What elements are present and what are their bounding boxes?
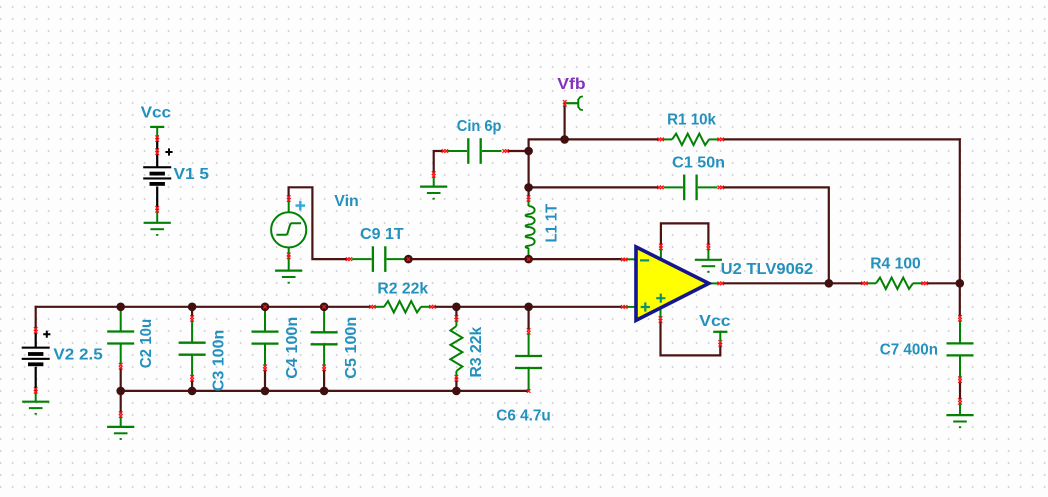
pin	[34, 327, 38, 331]
wire	[191, 380, 193, 392]
node Vfb terminal	[565, 102, 579, 104]
power Vcc V1 rail symbol	[150, 126, 164, 128]
wire	[120, 368, 122, 392]
wire	[528, 138, 659, 140]
wire	[455, 307, 457, 320]
wire	[35, 306, 372, 308]
pin	[263, 305, 266, 308]
ground	[433, 176, 435, 187]
junction	[320, 303, 329, 312]
svg-text:C3 100n: C3 100n	[210, 330, 227, 392]
pin	[34, 387, 38, 391]
resistor R2	[374, 306, 384, 308]
junction	[524, 183, 533, 192]
ground	[107, 426, 134, 428]
wire	[191, 307, 193, 317]
wire	[264, 369, 266, 392]
pin	[287, 195, 291, 199]
capacitor C7	[959, 320, 961, 343]
svg-text:R3 22k: R3 22k	[468, 327, 485, 378]
wire	[323, 369, 325, 392]
junction	[452, 303, 461, 312]
capacitor C6	[528, 333, 530, 356]
junction	[188, 387, 197, 396]
pin	[922, 282, 926, 286]
wire	[959, 138, 961, 317]
wire	[563, 103, 565, 139]
ground	[707, 248, 709, 260]
ground	[420, 186, 447, 188]
wire	[289, 187, 348, 259]
svg-text:C5 100n: C5 100n	[343, 317, 360, 379]
junction	[116, 303, 125, 312]
pin	[442, 149, 446, 153]
svg-text:R1 10k: R1 10k	[667, 111, 716, 128]
wire	[661, 319, 721, 356]
svg-text:Vin: Vin	[334, 193, 359, 210]
ground	[144, 222, 171, 224]
capacitor C3	[191, 320, 193, 343]
junction	[560, 135, 569, 144]
pin	[718, 186, 722, 190]
junction	[524, 147, 533, 156]
junction	[116, 387, 125, 396]
pin	[527, 389, 531, 393]
wire	[527, 139, 529, 198]
pin	[119, 411, 123, 415]
pin	[958, 376, 962, 380]
op-amp minus	[640, 259, 649, 261]
junction	[404, 255, 413, 264]
ground	[35, 392, 37, 402]
ground	[946, 414, 973, 416]
pin	[369, 305, 373, 309]
wire	[507, 150, 529, 152]
inductor L1	[528, 201, 530, 207]
pin	[621, 305, 625, 309]
svg-text:R4 100: R4 100	[870, 255, 921, 272]
pin	[322, 305, 325, 308]
wire	[527, 307, 529, 331]
capacitor C2	[120, 307, 122, 332]
battery V1	[143, 166, 171, 168]
pin	[155, 135, 159, 139]
voltage source Vin	[271, 212, 306, 247]
svg-text:V1 5: V1 5	[174, 166, 210, 183]
pin	[657, 138, 661, 142]
pin	[657, 186, 661, 190]
junction	[524, 303, 533, 312]
wire	[959, 382, 961, 401]
resistor R3	[455, 321, 457, 327]
plus sign Vin	[296, 201, 306, 211]
plus sign V2	[43, 331, 50, 338]
wire	[828, 187, 830, 283]
op-amp plus 2	[656, 294, 665, 303]
wire	[661, 223, 709, 246]
pin	[718, 138, 722, 142]
capacitor C9	[352, 258, 372, 260]
junction	[956, 279, 965, 288]
wire	[408, 258, 621, 260]
wire	[455, 378, 457, 392]
ground	[275, 270, 302, 272]
svg-text:L1 1T: L1 1T	[543, 204, 560, 243]
wire	[120, 391, 122, 414]
junction	[188, 303, 197, 312]
ground	[959, 404, 961, 416]
wire	[35, 306, 37, 331]
pin	[958, 398, 962, 402]
ground	[156, 211, 158, 223]
junction	[825, 279, 834, 288]
pin	[659, 244, 663, 248]
pin	[190, 315, 194, 319]
svg-text:C9 1T: C9 1T	[360, 226, 404, 243]
pin	[429, 305, 433, 309]
capacitor C4	[264, 307, 266, 332]
pin	[287, 253, 291, 257]
pin	[563, 100, 567, 104]
svg-text:C1 50n: C1 50n	[672, 155, 725, 172]
svg-text:C6 4.7u: C6 4.7u	[496, 408, 551, 425]
ground	[695, 259, 722, 261]
pin	[861, 282, 865, 286]
wire	[722, 186, 830, 188]
pin	[263, 365, 267, 369]
op-amp U2	[636, 247, 709, 320]
svg-text:C4 100n: C4 100n	[284, 317, 301, 379]
pin	[155, 148, 159, 152]
wire	[433, 150, 444, 152]
pin	[346, 257, 350, 261]
svg-text:U2 TLV9062: U2 TLV9062	[721, 261, 814, 278]
pin	[707, 244, 711, 248]
svg-text:C2 10u: C2 10u	[138, 319, 155, 369]
battery V2	[22, 347, 50, 349]
pin	[659, 316, 663, 320]
op-amp U2 input pins	[621, 258, 636, 260]
wire	[722, 282, 863, 284]
pin	[432, 171, 436, 175]
pin	[527, 195, 531, 199]
pin	[719, 340, 723, 344]
pin	[621, 258, 625, 262]
wire	[121, 390, 529, 392]
pin	[502, 149, 506, 153]
wire	[926, 282, 961, 284]
wire	[35, 333, 37, 348]
pin	[527, 257, 530, 260]
wire	[529, 186, 659, 188]
capacitor C1	[663, 186, 683, 188]
svg-text:Vcc: Vcc	[141, 104, 172, 121]
pin	[455, 315, 459, 319]
pin	[119, 363, 123, 367]
power Vcc rail symbol right	[713, 331, 727, 333]
capacitor C5	[323, 307, 325, 333]
svg-text:Vfb: Vfb	[557, 76, 586, 93]
plus sign V1	[165, 148, 172, 155]
wire	[433, 152, 435, 175]
wire	[434, 306, 622, 308]
wire	[35, 367, 37, 394]
wire	[156, 187, 158, 213]
pin	[455, 375, 459, 379]
svg-text:Vcc: Vcc	[699, 313, 731, 330]
pin	[958, 315, 962, 319]
resistor R4	[866, 282, 876, 284]
pin	[190, 375, 194, 379]
ground	[120, 417, 122, 427]
pin	[407, 257, 410, 260]
pin	[322, 365, 326, 369]
ground	[22, 401, 49, 403]
wire	[156, 136, 158, 167]
junction	[452, 387, 461, 396]
svg-text:V2 2.5: V2 2.5	[53, 346, 102, 363]
svg-text:Cin 6p: Cin 6p	[457, 118, 502, 135]
junction	[261, 303, 270, 312]
junction	[320, 387, 329, 396]
svg-text:C7 400n: C7 400n	[880, 341, 938, 358]
pin	[155, 206, 159, 210]
resistor R1	[662, 138, 672, 140]
svg-text:R2 22k: R2 22k	[377, 281, 428, 298]
junction	[524, 255, 533, 264]
op-amp plus	[641, 302, 650, 311]
pin	[527, 328, 531, 332]
pin	[718, 282, 722, 286]
wire	[723, 138, 961, 140]
junction	[261, 387, 270, 396]
capacitor Cin	[448, 150, 468, 152]
